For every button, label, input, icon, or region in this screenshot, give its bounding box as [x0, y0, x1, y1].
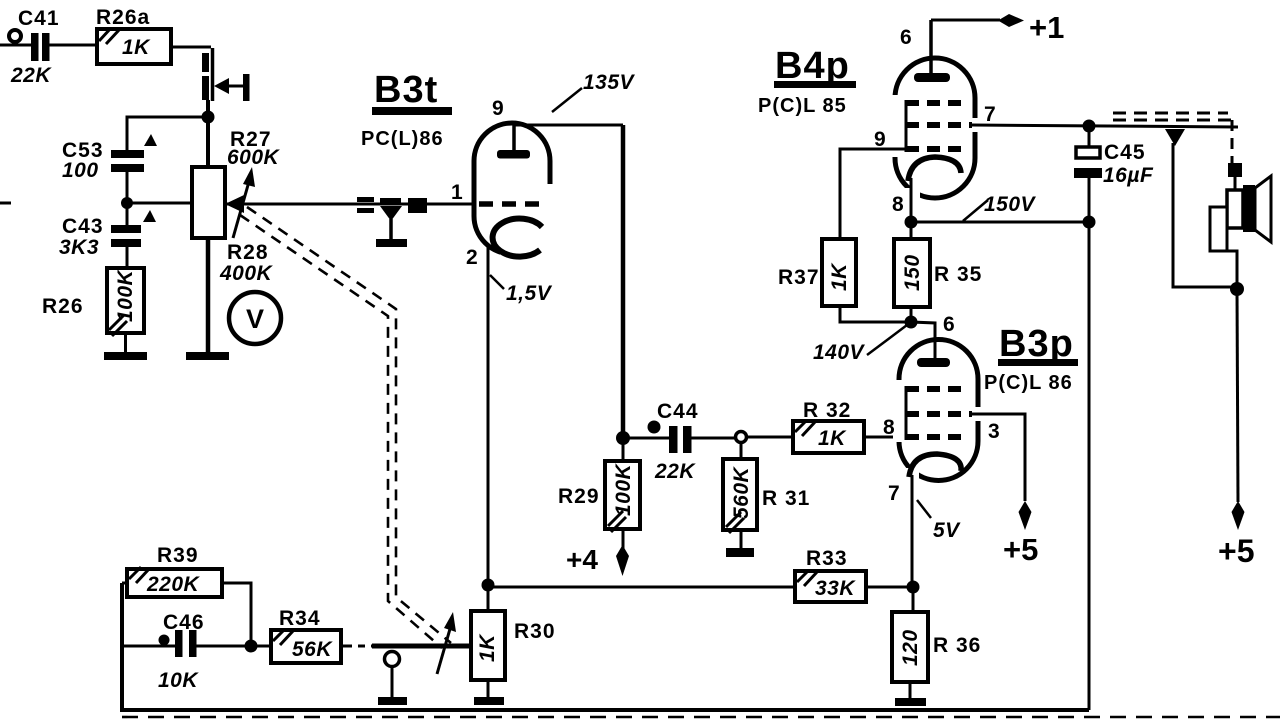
cathode of B3p [909, 454, 961, 477]
node jack/C53/pot junction [202, 111, 215, 124]
resistor R34 [271, 607, 341, 663]
svg-text:6: 6 [900, 26, 912, 49]
ground below R36 [895, 698, 926, 706]
wire R30 to ground [487, 680, 490, 699]
mechanical link dashed gang line [240, 207, 451, 648]
tube B3t envelope [474, 123, 558, 259]
svg-text:C46: C46 [163, 611, 205, 634]
svg-text:R26: R26 [42, 295, 84, 318]
node pin8/150V junction [905, 216, 918, 229]
svg-text:400K: 400K [219, 262, 274, 285]
node top C45 junction [1083, 120, 1096, 133]
svg-text:R34: R34 [279, 607, 321, 630]
connector square open on grid wire [357, 197, 374, 213]
svg-text:600K: 600K [227, 146, 281, 169]
tube B3t labels [361, 69, 504, 269]
node C44/R29 junction [616, 431, 630, 445]
wire jack down to node [206, 100, 210, 167]
wire C53 to C43 [126, 172, 129, 225]
svg-text:R29: R29 [558, 485, 600, 508]
wire R33 line [488, 586, 795, 589]
svg-text:100K: 100K [114, 268, 137, 322]
node C45 bottom junction [1083, 216, 1096, 229]
wire C43 to R26 [126, 247, 129, 268]
connector triangle on output wire [1165, 129, 1185, 146]
svg-text:8: 8 [883, 416, 895, 439]
svg-text:22K: 22K [654, 460, 696, 483]
node cathode/R30/R33 junction [482, 579, 495, 592]
wire C46 row [122, 645, 175, 648]
supply arrow +5 middle [1003, 501, 1038, 567]
wire left rail [122, 583, 1089, 710]
svg-text:1K: 1K [476, 633, 499, 662]
wire 150V rail to C45 [911, 221, 1089, 224]
wire R32 to B3p grid [864, 436, 906, 439]
svg-text:5V: 5V [933, 519, 961, 542]
ground below R31 [726, 548, 754, 557]
ground below R30 [474, 697, 504, 705]
svg-text:B4p: B4p [775, 45, 850, 87]
svg-text:V: V [246, 304, 264, 334]
svg-text:33K: 33K [815, 577, 856, 600]
cathode of B3t [493, 219, 542, 257]
resistor R37 [778, 239, 856, 306]
label 150V with tick [963, 193, 1037, 221]
svg-text:P(C)L 86: P(C)L 86 [984, 372, 1073, 394]
wire B4p pin9 to R37 [840, 149, 906, 239]
connector square speaker plug [1228, 163, 1242, 177]
R30 wiper arrow [437, 612, 456, 674]
wire R39 to C46 node [222, 583, 251, 646]
wire pin3 to +5 arrow [972, 414, 1025, 501]
svg-text:10K: 10K [158, 669, 199, 692]
grids of B4p dashed [906, 100, 972, 152]
wire dashed speaker feed [1113, 113, 1238, 164]
connector circle with ground [385, 652, 400, 699]
supply arrow +1 [931, 10, 1064, 45]
svg-text:P(C)L 85: P(C)L 85 [758, 95, 847, 117]
supply arrow +5 right [1218, 289, 1254, 569]
svg-text:150V: 150V [984, 193, 1037, 216]
wire B4p cathode pin8 down [910, 178, 913, 222]
wire pin7 of B4p to top node [972, 125, 1238, 127]
wire C41 to R26a [49, 44, 97, 47]
grid of B3t dashed [479, 201, 543, 207]
wire left edge stub [0, 202, 11, 205]
resistor R36 [892, 587, 981, 682]
svg-text:R 36: R 36 [933, 634, 981, 657]
label 1,5V with tick [490, 275, 553, 305]
svg-text:C45: C45 [1104, 141, 1146, 164]
svg-text:+5: +5 [1003, 532, 1038, 567]
resistor R26 [42, 268, 144, 336]
svg-text:120: 120 [899, 629, 922, 666]
svg-text:560K: 560K [730, 465, 753, 519]
resistor R30 [471, 585, 556, 680]
wire R35 bottom to node [910, 307, 913, 322]
anode of B3p [911, 322, 950, 367]
capacitor C41 [10, 7, 60, 87]
svg-text:R 35: R 35 [934, 263, 982, 286]
wire R26 to ground [124, 333, 127, 353]
svg-text:C41: C41 [18, 7, 60, 30]
anode of B4p [914, 20, 950, 82]
capacitor C45 [1074, 126, 1154, 222]
node R39/C46 junction [245, 640, 258, 653]
svg-text:3: 3 [988, 420, 1000, 443]
svg-text:7: 7 [888, 482, 900, 505]
resistor R31 [723, 442, 810, 533]
wire B3t cathode down [487, 247, 490, 585]
svg-text:1K: 1K [828, 262, 851, 291]
wire R37 bottom to R35 node [840, 306, 911, 322]
svg-text:C43: C43 [62, 215, 104, 238]
meter V [229, 292, 281, 344]
svg-text:R33: R33 [806, 547, 848, 570]
svg-text:R37: R37 [778, 266, 820, 289]
node R35/R37/B3p-plate junction [905, 316, 918, 329]
capacitor C46 [158, 611, 205, 692]
wire B3p cathode pin7 down [911, 475, 914, 588]
svg-text:R30: R30 [514, 620, 556, 643]
svg-text:1: 1 [451, 181, 463, 204]
label 5V with tick [917, 500, 961, 542]
svg-text:+5: +5 [1218, 533, 1254, 569]
svg-text:150: 150 [901, 254, 924, 291]
tube B3p envelope [893, 340, 984, 484]
svg-text:7: 7 [984, 103, 996, 126]
capacitor C43 [59, 210, 156, 259]
wire pot wiper to grid [225, 203, 476, 206]
svg-text:9: 9 [492, 97, 504, 120]
svg-text:B3p: B3p [999, 323, 1074, 365]
wire plug to speaker [1234, 176, 1237, 191]
ground below pot [186, 352, 229, 360]
svg-text:R 32: R 32 [803, 399, 851, 422]
node input terminal ring [9, 30, 21, 42]
svg-text:220K: 220K [146, 573, 201, 596]
svg-text:B3t: B3t [374, 69, 438, 111]
label 140V with tick [813, 325, 907, 364]
node speaker return junction [1230, 282, 1244, 296]
wire R33 to node [866, 586, 914, 589]
svg-text:R26a: R26a [96, 6, 150, 29]
wire R26a to jack [171, 46, 211, 49]
svg-text:+4: +4 [566, 544, 598, 575]
resistor R26a [96, 6, 171, 64]
wire chassis dashed line [122, 716, 1280, 719]
wire node to C44 [623, 437, 669, 440]
svg-text:16µF: 16µF [1103, 164, 1154, 187]
connector plug with ground on grid wire [380, 198, 402, 241]
svg-text:6: 6 [943, 313, 955, 336]
supply arrow +4 [566, 529, 629, 576]
resistor R29 [558, 438, 640, 532]
svg-text:22K: 22K [10, 64, 52, 87]
svg-text:+1: +1 [1029, 10, 1064, 45]
svg-text:100: 100 [62, 159, 99, 182]
node open ring junction [736, 432, 747, 443]
svg-text:8: 8 [892, 193, 904, 216]
wire junction to pot left [127, 202, 192, 205]
wire input stub [0, 44, 31, 47]
wire B3t plate top to corner [514, 125, 623, 438]
wire R31 to ground [740, 530, 743, 549]
ground below R26 [104, 352, 147, 360]
svg-text:R39: R39 [157, 544, 199, 567]
grids of B3p dashed [906, 386, 972, 440]
anode of B3t [497, 122, 530, 159]
jack connector J1 [202, 48, 250, 101]
tube B4p labels [758, 26, 996, 216]
capacitor C53 [62, 134, 157, 182]
resistor R32 [793, 399, 864, 453]
svg-text:100K: 100K [612, 462, 635, 516]
ground below connector [378, 697, 407, 705]
connector square filled on grid wire [408, 198, 427, 213]
capacitor C44 [648, 400, 699, 483]
node R33/R36/pin7 junction [907, 581, 920, 594]
label 135V with tick [552, 71, 636, 112]
ground below grid connector [376, 239, 407, 247]
wire node to C53 top [127, 117, 208, 150]
tube B4p envelope [889, 58, 981, 202]
svg-text:C44: C44 [657, 400, 699, 423]
resistor R39 [122, 544, 222, 597]
resistor R33 [795, 547, 866, 602]
svg-text:1,5V: 1,5V [506, 282, 553, 305]
speaker LS [1210, 176, 1271, 287]
svg-text:PC(L)86: PC(L)86 [361, 128, 444, 150]
svg-text:1K: 1K [122, 36, 151, 59]
svg-text:R 31: R 31 [762, 487, 810, 510]
wire C44 to ring node [691, 437, 736, 440]
wire pot bottom to ground [206, 238, 211, 353]
potentiometer R27/R28 [192, 128, 281, 285]
svg-text:3K3: 3K3 [59, 236, 99, 259]
wire R34 to R30 wiper [341, 643, 471, 650]
svg-text:135V: 135V [583, 71, 636, 94]
resistor R35 [894, 222, 982, 307]
cathode of B4p [908, 157, 961, 181]
pot wiper arrow [225, 167, 255, 238]
wire right rail down [1088, 222, 1091, 710]
wire C46 to R34 [196, 645, 271, 648]
svg-text:140V: 140V [813, 341, 866, 364]
svg-text:1K: 1K [818, 427, 847, 450]
node C53/C43/pot-left junction [121, 197, 133, 209]
svg-text:R28: R28 [227, 241, 269, 264]
svg-text:56K: 56K [292, 638, 333, 661]
tube B3p labels [883, 313, 1078, 505]
wire ring to R32 [747, 436, 793, 439]
wire output down to speaker return [1173, 143, 1237, 287]
wire R36 to ground [909, 682, 912, 699]
svg-text:2: 2 [466, 246, 478, 269]
